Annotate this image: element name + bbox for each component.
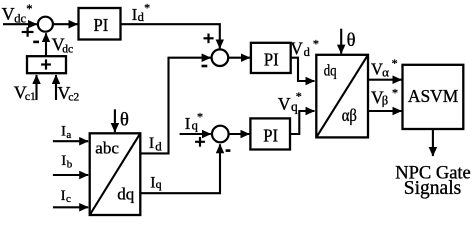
wire Id* from PI1 to sum S2 top: [121, 24, 220, 48]
block dq-alphabeta: [316, 55, 368, 138]
wire Iq* input to sum S3: [180, 133, 211, 135]
svg-text:*: *: [197, 110, 203, 124]
svg-text:θ: θ: [347, 31, 356, 51]
minus sign at S2: [202, 65, 208, 68]
svg-text:I: I: [61, 188, 66, 204]
svg-text:d: d: [155, 138, 162, 153]
svg-text:*: *: [296, 89, 302, 103]
plus sign at S2: [204, 37, 214, 39]
block ASVM: [403, 65, 464, 129]
block PI2: [251, 43, 291, 73]
summing junction S2: [212, 49, 229, 66]
plus sign inside sum box: [41, 63, 51, 65]
svg-text:Signals: Signals: [404, 178, 461, 199]
wire Vq* from PI3 to dq block: [290, 111, 315, 134]
svg-text:PI: PI: [263, 126, 278, 146]
plus sign at S1: [22, 31, 34, 33]
svg-text:dc: dc: [62, 44, 73, 56]
wire Ib input: [53, 174, 88, 176]
wire Ia input: [53, 140, 88, 142]
svg-text:q: q: [156, 177, 162, 191]
summing junction S3: [212, 126, 229, 143]
block PI1: [79, 8, 121, 40]
svg-text:I: I: [61, 123, 66, 139]
summing junction S1: [38, 17, 53, 32]
block PI3: [250, 118, 290, 149]
svg-text:θ: θ: [120, 111, 129, 131]
svg-text:I: I: [132, 5, 138, 24]
wire Vd* from PI2 to dq block: [291, 58, 315, 81]
svg-text:α: α: [382, 64, 389, 79]
svg-text:dc: dc: [14, 11, 26, 25]
wire Id feedback riser to S2: [140, 58, 210, 154]
wire Vc1 input arrow: [35, 75, 37, 100]
svg-text:PI: PI: [94, 15, 109, 35]
svg-text:dq: dq: [324, 62, 337, 79]
wire Vdc feedback riser into S1: [45, 33, 47, 56]
svg-text:c2: c2: [68, 91, 79, 103]
svg-text:c1: c1: [25, 91, 36, 103]
block sum box: [27, 56, 66, 73]
wire S3 to PI3: [229, 133, 250, 135]
wire Vbeta to ASVM: [368, 110, 402, 112]
wire Vc2 input arrow: [55, 75, 57, 100]
svg-text:c: c: [66, 193, 71, 205]
svg-text:V: V: [290, 39, 303, 59]
svg-text:β: β: [382, 93, 388, 107]
svg-text:V: V: [278, 94, 291, 114]
wire Iq feedback riser to S3: [140, 144, 220, 193]
theta arrow into dq-alphabeta: [340, 29, 342, 54]
svg-text:dq: dq: [117, 185, 135, 204]
svg-text:I: I: [185, 114, 191, 133]
svg-text:I: I: [150, 175, 155, 192]
svg-text:*: *: [313, 36, 319, 50]
diagonal of abc-dq block: [90, 133, 141, 215]
diagonal of dq-alphabeta block: [316, 55, 368, 138]
svg-text:*: *: [392, 85, 398, 99]
block abc-dq: [90, 133, 141, 215]
svg-text:V: V: [2, 4, 15, 24]
svg-text:*: *: [26, 2, 32, 16]
svg-text:a: a: [66, 129, 71, 141]
svg-text:PI: PI: [264, 49, 279, 69]
wire Ic input: [53, 206, 88, 208]
wire S2 to PI2: [228, 57, 250, 59]
plus sign at S3: [195, 141, 205, 143]
minus sign at S1: [33, 41, 39, 44]
svg-text:I: I: [149, 135, 154, 152]
svg-text:αβ: αβ: [342, 105, 357, 125]
minus sign at S3: [226, 149, 231, 152]
wire Valpha to ASVM: [368, 79, 402, 81]
theta arrow into abc-dq: [114, 109, 116, 132]
wire ASVM output down: [432, 129, 434, 156]
svg-text:b: b: [67, 159, 73, 171]
wire S1 to PI1: [53, 23, 78, 25]
svg-text:d: d: [304, 45, 311, 59]
svg-text:I: I: [61, 153, 66, 169]
svg-text:*: *: [144, 2, 150, 14]
wire Vdc* input to sum S1: [3, 23, 37, 25]
svg-text:*: *: [392, 56, 398, 70]
svg-text:ASVM: ASVM: [408, 86, 459, 106]
svg-text:abc: abc: [95, 139, 119, 158]
